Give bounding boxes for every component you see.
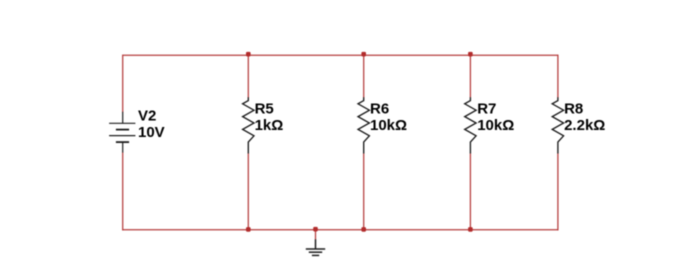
svg-text:10kΩ: 10kΩ	[477, 117, 514, 134]
wire left branch upper (top bus to V2)	[122, 55, 124, 113]
resistor R5	[243, 97, 254, 153]
wire R7 branch upper	[469, 55, 471, 97]
wire R8 branch lower	[557, 153, 559, 230]
svg-text:R5: R5	[255, 100, 274, 117]
wire R6 branch lower	[363, 153, 365, 230]
resistor R6	[358, 97, 369, 153]
svg-text:10kΩ: 10kΩ	[370, 117, 407, 134]
node junction bottom R5	[246, 227, 251, 232]
wire R8 branch upper	[557, 55, 559, 98]
node junction bottom ground	[313, 227, 318, 232]
node junction top R7	[468, 52, 473, 57]
wire top bus	[123, 54, 558, 56]
node junction bottom R7	[468, 227, 473, 232]
svg-text:R6: R6	[370, 100, 389, 117]
node junction top R5	[246, 52, 251, 57]
wire R6 branch upper	[363, 55, 365, 97]
wire bottom bus	[123, 229, 558, 231]
ground	[306, 239, 325, 255]
svg-text:2.2kΩ: 2.2kΩ	[564, 117, 605, 134]
wire R7 branch lower	[469, 153, 471, 230]
wire left branch lower (V2 to bottom bus)	[122, 153, 124, 231]
svg-text:10V: 10V	[138, 124, 165, 141]
svg-text:R7: R7	[477, 100, 496, 117]
svg-text:R8: R8	[564, 100, 583, 117]
svg-text:1kΩ: 1kΩ	[255, 117, 284, 134]
resistor R8	[552, 97, 563, 153]
battery V2 symbol	[109, 112, 135, 153]
node junction bottom R6	[361, 227, 366, 232]
wire ground stub	[315, 230, 317, 240]
node junction top R6	[361, 52, 366, 57]
wire R5 branch upper	[247, 55, 249, 97]
svg-text:V2: V2	[138, 108, 156, 125]
resistor R7	[465, 97, 476, 153]
wire R5 branch lower	[247, 153, 249, 230]
